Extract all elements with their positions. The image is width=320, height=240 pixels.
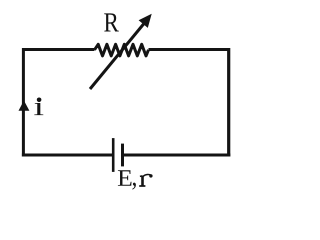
label r of E,r	[139, 174, 151, 186]
battery cell: short thick plate (negative)	[121, 144, 124, 167]
wire left side	[22, 48, 25, 157]
wire right side	[227, 48, 230, 157]
variable-resistor diagonal arrow head	[139, 14, 152, 28]
battery cell: long thin plate (positive)	[112, 138, 115, 172]
wire bottom-right segment	[123, 154, 230, 157]
wire top-left segment	[23, 48, 94, 51]
label comma of E,r	[132, 183, 135, 190]
dot of label i	[37, 98, 42, 103]
current arrow head on left wire (pointing up)	[19, 101, 30, 111]
label E of E,r	[118, 170, 132, 186]
resistor R (variable) zigzag	[95, 44, 149, 56]
label i	[34, 103, 43, 115]
label R	[104, 13, 119, 31]
variable-resistor diagonal arrow shaft	[90, 24, 144, 90]
wire top-right segment	[149, 48, 229, 51]
wire bottom-left segment	[22, 154, 113, 157]
